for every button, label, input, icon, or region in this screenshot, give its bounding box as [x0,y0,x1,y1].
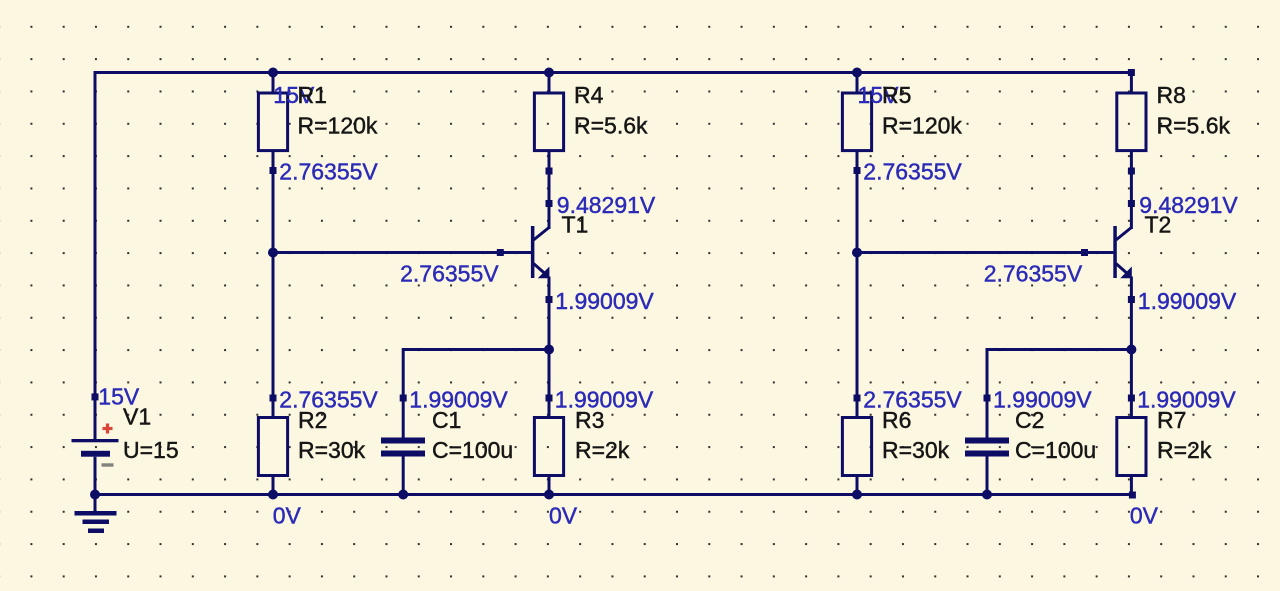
resistor R6 body [842,418,871,476]
junction base wire T1 at R1/R2 column [268,248,278,258]
svg-text:C=100u: C=100u [1015,437,1096,463]
node square T2 base pin [1081,249,1088,256]
junction base wire T2 at R5/R6 column [852,248,862,258]
node square T1 collector 9.48291V [546,200,553,207]
resistor R2 body [258,418,287,476]
svg-text:R6: R6 [882,407,911,433]
junction at R4 top on 15V rail [544,68,554,78]
svg-text:T1: T1 [562,212,589,238]
svg-text:U=15: U=15 [123,437,179,463]
svg-text:0V: 0V [273,503,302,529]
wire: C1 vertical to top plate [402,348,405,438]
svg-text:2.76355V: 2.76355V [279,158,378,184]
junction at R2 bottom on 0V rail [268,490,278,500]
wire: R7 bottom to 0V rail [1130,476,1133,496]
wire: T1 base wire [273,251,531,254]
wire: top 15V supply rail [94,71,1133,74]
ground bar 1 [75,511,117,516]
wire: R4 bottom to T1 collector [548,151,551,230]
battery plus sign [103,424,113,434]
svg-text:R=30k: R=30k [298,437,366,463]
transistor T1 base bar [531,226,535,278]
svg-text:2.76355V: 2.76355V [984,261,1083,287]
svg-text:R8: R8 [1157,82,1186,108]
svg-text:R=5.6k: R=5.6k [1157,112,1231,138]
wire: R2 bottom to 0V rail [272,476,275,496]
svg-text:2.76355V: 2.76355V [863,386,962,412]
transistor T1 emitter diagonal [534,264,547,275]
transistor T1 collector diagonal [534,228,550,241]
transistor T2 base bar [1113,226,1117,278]
wire: rail to R4 top [548,71,551,93]
resistor R1 body [258,93,287,151]
resistor R8 body [1117,93,1146,151]
wire: R6 bottom to 0V rail [856,476,859,496]
battery V1 bottom plate [81,451,110,457]
svg-text:2.76355V: 2.76355V [279,386,378,412]
wire: bottom 0V rail [94,493,1133,496]
svg-text:R2: R2 [298,407,327,433]
wire: T1 emitter to R3 top [548,277,551,418]
node square R4 bottom [546,168,553,175]
svg-text:R=120k: R=120k [298,112,378,138]
svg-text:0V: 0V [1130,503,1159,529]
junction at battery/ground on 0V rail [90,490,100,500]
svg-text:R=30k: R=30k [882,437,950,463]
svg-text:2.76355V: 2.76355V [863,158,962,184]
junction at R5 top on 15V rail [852,68,862,78]
node square battery top 15V [92,393,99,400]
svg-text:1.99009V: 1.99009V [1138,288,1237,314]
junction C1 wire at T1 emitter [544,345,554,355]
transistor T2 emitter arrow [1120,267,1132,279]
node square T1 base pin [497,249,504,256]
svg-text:R4: R4 [574,82,604,108]
node square R8 bottom [1128,168,1135,175]
capacitor C2 bottom plate [965,451,1009,457]
svg-text:R7: R7 [1157,407,1186,433]
wire: R1 bottom to R2 top [272,151,275,418]
wire: left vertical from rail to battery top [94,71,97,439]
svg-text:T2: T2 [1145,212,1172,238]
transistor T2 collector diagonal [1116,228,1132,241]
svg-text:C=100u: C=100u [432,437,513,463]
junction at C1 bottom on 0V rail [398,490,408,500]
node square R6 top 2.76355V [854,395,861,402]
node square T2 emitter 1.99009V [1128,296,1135,303]
capacitor C1 top plate [381,438,425,444]
svg-text:C2: C2 [1015,407,1044,433]
svg-text:1.99009V: 1.99009V [555,288,654,314]
wire: ground stem [94,495,97,512]
svg-text:R3: R3 [575,407,604,433]
svg-text:R1: R1 [298,82,327,108]
resistor R7 body [1117,418,1146,476]
resistor R5 body [842,93,871,151]
node square C2 top 1.99009V [984,395,991,402]
wire: battery bottom to 0V rail [94,457,97,496]
wire: T2 emitter to R7 top [1130,277,1133,418]
ground bar 3 [88,529,104,534]
resistor R3 body [534,418,563,476]
svg-text:R=2k: R=2k [575,437,630,463]
capacitor C1 bottom plate [381,451,425,457]
transistor T1 emitter arrow [538,267,550,279]
wire: C1 top horizontal to emitter [403,348,549,351]
wire: rail to R5 top [856,71,859,93]
transistor T2 emitter diagonal [1116,264,1129,275]
node square R3 top 1.99009V [546,395,553,402]
junction at R6 bottom on 0V rail [852,490,862,500]
ground bar 2 [83,520,110,525]
wire: R5 bottom to R6 top [856,151,859,418]
wire: R8 bottom to T2 collector [1130,151,1133,230]
node square R2 top 2.76355V [270,395,277,402]
battery minus sign [102,463,114,466]
wire: C2 top horizontal to emitter [987,348,1131,351]
junction at C2 bottom on 0V rail [982,490,992,500]
wire: C1 bottom plate to 0V rail [402,457,405,497]
wire: rail to R1 top [272,71,275,93]
node square R7 top 1.99009V [1128,395,1135,402]
wire: rail corner to R8 top [1130,71,1133,93]
node square at R7 bottom rail end [1129,492,1136,499]
svg-text:R=2k: R=2k [1157,437,1212,463]
node square T1 emitter 1.99009V [546,296,553,303]
junction C2 wire at T2 emitter [1126,345,1136,355]
wire: T2 base wire [857,251,1113,254]
wire: R3 bottom to 0V rail [548,476,551,496]
resistor R4 body [534,93,563,151]
node square T2 collector 9.48291V [1128,200,1135,207]
node square at top-right corner R8 [1128,69,1135,76]
svg-text:2.76355V: 2.76355V [400,261,499,287]
wire: C2 bottom plate to 0V rail [986,457,989,497]
junction at R3 bottom on 0V rail [544,490,554,500]
junction at R1 top on 15V rail [268,68,278,78]
node square C1 top 1.99009V [400,395,407,402]
svg-text:1.99009V: 1.99009V [1137,386,1236,412]
svg-text:0V: 0V [549,503,578,529]
svg-text:V1: V1 [123,403,151,429]
node square R5 bottom 2.76355V [854,167,861,174]
battery V1 top plate [72,439,119,442]
wire: C2 vertical to top plate [986,348,989,438]
node square R1 bottom 2.76355V [270,167,277,174]
svg-text:C1: C1 [432,407,461,433]
svg-text:R5: R5 [882,82,911,108]
svg-text:R=120k: R=120k [882,112,962,138]
svg-text:R=5.6k: R=5.6k [574,112,648,138]
capacitor C2 top plate [965,438,1009,444]
